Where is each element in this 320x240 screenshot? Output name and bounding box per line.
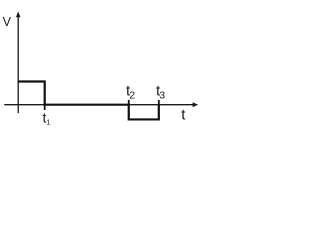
- svg-text:2: 2: [129, 89, 135, 101]
- svg-text:1: 1: [46, 118, 50, 127]
- svg-text:3: 3: [159, 90, 165, 102]
- svg-text:t: t: [181, 107, 186, 124]
- svg-text:V: V: [3, 15, 12, 29]
